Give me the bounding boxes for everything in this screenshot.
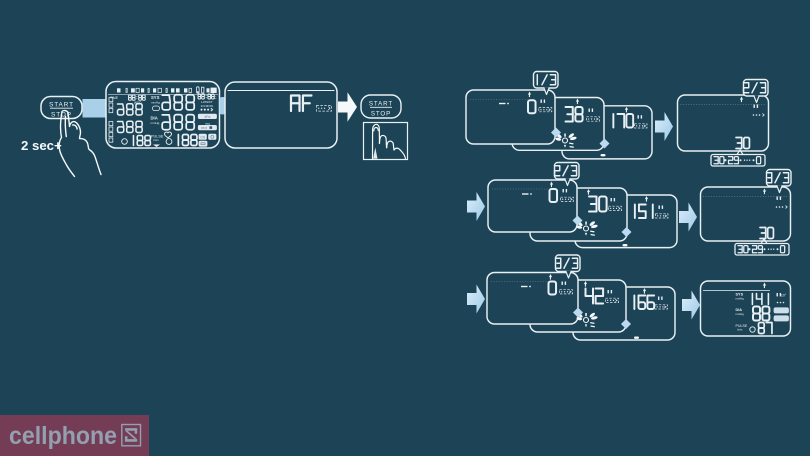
svg-text:2 sec+: 2 sec+ [21, 138, 62, 153]
row1 sparkle diamonds [551, 128, 561, 138]
svg-text:kPa: kPa [205, 115, 211, 119]
row1 screen 0 [466, 90, 555, 144]
LCD PULSE 188 [177, 135, 179, 146]
svg-text:1/3 MON.: 1/3 MON. [201, 104, 214, 108]
finger box [364, 123, 408, 160]
row3 tag 3/3 [556, 255, 581, 272]
LCD pulse circle icon [166, 139, 172, 145]
row2 screen 30 [530, 188, 627, 241]
row1 blink burst [563, 138, 568, 143]
svg-text:mmHg: mmHg [151, 121, 160, 125]
row2 sparkle diamonds [573, 216, 583, 226]
row2 result screen [701, 187, 791, 241]
svg-text:°C: °C [213, 96, 217, 100]
row3 result screen [701, 281, 791, 336]
row1 tag 2/3 [744, 80, 769, 97]
svg-text:TIME: TIME [110, 96, 119, 100]
svg-text:/min: /min [153, 138, 159, 142]
LCD DIA 888 [162, 122, 170, 130]
LCD display frame [106, 82, 220, 149]
pressing hand [59, 111, 101, 177]
LCD left icon column 2 [109, 122, 113, 143]
LCD left icon column 1 [109, 98, 113, 113]
LCD bottom-left 188 [122, 136, 151, 146]
LCD kPa box [198, 114, 216, 118]
svg-text:10°: 10° [781, 294, 787, 298]
AF screen frame [225, 82, 337, 148]
svg-text:START: START [369, 101, 393, 108]
LCD SYS 888 [162, 102, 170, 110]
row2 tag 2/3 [555, 163, 580, 180]
row1 screen 38 [512, 98, 604, 151]
row3 blink burst [584, 318, 589, 323]
AF dots box [317, 106, 332, 112]
row1 memory box [737, 150, 743, 155]
LCD user1 888 [118, 109, 124, 115]
start/stop button 1 [41, 97, 82, 119]
LCD user2 888 [118, 127, 124, 133]
row3 screen 0 [487, 273, 578, 325]
svg-text:/min: /min [737, 328, 743, 332]
AF screen top line [228, 90, 335, 92]
row3 screen 166 [573, 287, 675, 340]
LCD time 88:88 [110, 95, 145, 105]
LCD DIA label [151, 116, 160, 126]
AF digits [291, 96, 300, 112]
LCD SYS label [151, 95, 160, 111]
svg-text:DIA: DIA [151, 116, 158, 121]
svg-text:mmHg: mmHg [151, 101, 160, 105]
row2 memory box [761, 239, 767, 244]
LCD top icon row [117, 87, 217, 93]
svg-text:88:8: 88:8 [201, 126, 207, 130]
LCD icon row separator [108, 94, 218, 96]
row1 result screen [678, 95, 769, 151]
row2 screen 0 [488, 180, 577, 232]
LCD right temp 88:88C [198, 94, 217, 111]
row2 tag 3/3 [767, 170, 792, 187]
row1 screen 170 [562, 106, 652, 159]
row3 blue arrow [682, 291, 700, 320]
row1 blue arrow [655, 112, 673, 141]
blue connector 1 [83, 99, 107, 118]
row2 screen 151 [575, 195, 677, 248]
row2 blue arrow [679, 203, 697, 232]
svg-text:cellphone: cellphone [9, 422, 117, 450]
svg-text:SYS: SYS [151, 95, 160, 100]
svg-text:mmHg: mmHg [736, 312, 745, 316]
svg-text:CN: CN [200, 135, 205, 139]
row2 left blue arrow [467, 192, 485, 221]
white arrow [338, 92, 357, 122]
LCD PULSE label [151, 135, 164, 148]
row3 left blue arrow [467, 285, 485, 314]
row3 sparkle diamonds [573, 308, 583, 318]
row1 tag 1/3 [534, 72, 559, 89]
row2 blink burst [584, 226, 589, 231]
start/stop button 2 [361, 95, 401, 118]
LCD small boxes [199, 134, 206, 139]
svg-text:STOP: STOP [371, 111, 391, 118]
svg-text:START: START [49, 101, 74, 108]
finger icon [373, 124, 406, 158]
cellphoneS logo [0, 415, 149, 456]
row3 screen 42 [530, 280, 626, 332]
LCD heart icon [165, 132, 172, 138]
svg-text:mmHg: mmHg [736, 297, 745, 301]
blue connector 2 [220, 97, 226, 115]
